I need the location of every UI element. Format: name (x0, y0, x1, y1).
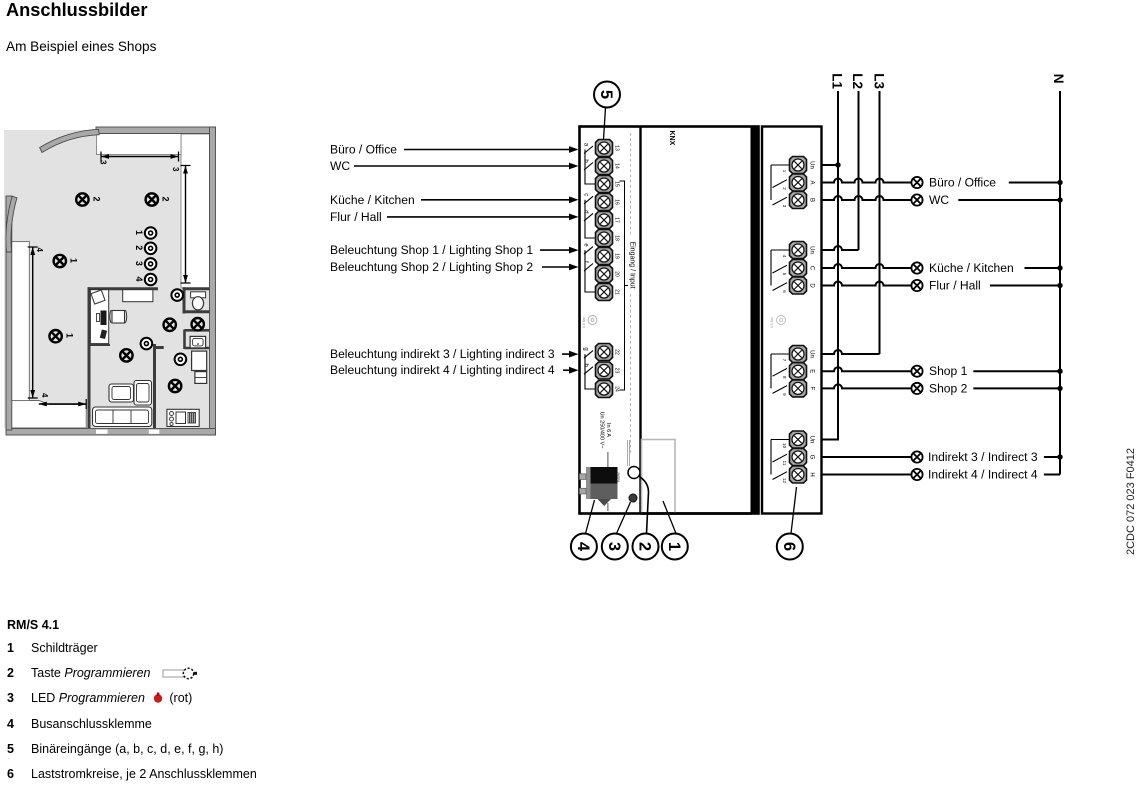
input switch group ef (584, 247, 595, 292)
armchair 2 (134, 381, 152, 406)
svg-text:3: 3 (605, 542, 623, 551)
svg-text:L3: L3 (872, 73, 887, 89)
wire D to N (990, 283, 1063, 288)
shelf top of back room (123, 290, 153, 302)
wire row G (822, 456, 912, 458)
input letters e f (583, 243, 589, 263)
svg-text:4: 4 (574, 542, 592, 552)
svg-text:N: N (1051, 74, 1066, 84)
svg-text:Un: Un (809, 161, 815, 169)
lamp label Küche/Kitchen (929, 261, 1014, 275)
lamp Shop 2 (911, 383, 922, 394)
lamp label Büro/Office (929, 176, 996, 190)
svg-text:H: H (809, 472, 815, 476)
svg-text:h: h (583, 364, 589, 367)
group 3 pin numbers (782, 359, 787, 396)
lamp WC (911, 194, 922, 205)
label L3 (872, 73, 887, 89)
label N (1051, 74, 1066, 84)
desk (90, 290, 108, 344)
svg-text:1: 1 (69, 258, 79, 263)
dashed separator (630, 133, 632, 455)
wire H to N (1044, 474, 1060, 476)
WC wall (184, 287, 210, 313)
svg-text:WC: WC (929, 193, 949, 207)
svg-text:11: 11 (782, 461, 787, 466)
input letters g h (583, 347, 589, 366)
office chair (110, 310, 127, 323)
callout 3 (602, 502, 631, 560)
svg-text:Beleuchtung Shop 2 / Lighting: Beleuchtung Shop 2 / Lighting Shop 2 (330, 260, 533, 274)
desk phone (100, 329, 107, 339)
svg-text:19: 19 (614, 253, 620, 259)
sink room wall (185, 330, 210, 350)
rail L3 (879, 91, 881, 354)
svg-text:Küche / Kitchen: Küche / Kitchen (929, 261, 1014, 275)
svg-text:g: g (583, 347, 589, 350)
lamp 1 lower (49, 330, 74, 342)
wire Un2 to L2 (822, 246, 859, 250)
partition wall desk room bottom (89, 344, 110, 346)
svg-text:3: 3 (99, 160, 108, 165)
Taste label (616, 472, 621, 483)
device right box (762, 127, 822, 514)
page title (6, 0, 148, 21)
outer wall left (6, 196, 12, 430)
svg-text:13: 13 (614, 145, 620, 151)
kitchen block (167, 409, 199, 426)
lamp Flur/Hall (911, 280, 922, 291)
bus connection terminal (580, 467, 618, 506)
wire row B (822, 196, 912, 200)
bottom wall door gaps (96, 430, 159, 434)
lamp Shop 1 (911, 366, 922, 377)
svg-text:Flur / Hall: Flur / Hall (330, 210, 382, 224)
callout 2 (633, 477, 659, 560)
label L1 (830, 73, 845, 89)
svg-text:1: 1 (65, 333, 75, 338)
svg-text:10: 10 (782, 443, 787, 449)
lamp Küche/Kitchen (911, 262, 922, 273)
binary input terminals 13-21 (596, 140, 613, 301)
bus wire stub (607, 452, 609, 511)
svg-text:16: 16 (614, 199, 620, 205)
wire arrow input a (404, 146, 579, 153)
lamp 1 upper (54, 255, 79, 267)
partition wall horizontal main (88, 287, 210, 290)
rating text Un 250/400V (599, 412, 612, 449)
downlight row 1-4 (134, 227, 156, 285)
dimension line bottom (4) (39, 393, 86, 409)
svg-text:Büro / Office: Büro / Office (330, 143, 397, 157)
curved storefront wall (40, 129, 100, 152)
armchair 1 (109, 384, 134, 402)
visitor chair (91, 290, 105, 304)
callout 1 (662, 501, 688, 560)
lamp WC room (192, 318, 204, 330)
group 2 pin numbers (782, 255, 787, 294)
lamp Indirekt 4 (911, 469, 922, 480)
svg-text:Un: Un (809, 436, 815, 444)
svg-text:14: 14 (614, 163, 620, 169)
lamp lounge (120, 349, 132, 361)
wire row F (822, 384, 912, 388)
document number (1125, 543, 1142, 555)
output terminal group 4 Un G H (790, 431, 807, 483)
svg-text:20: 20 (614, 271, 620, 277)
group 4 bracket and contacts (771, 440, 789, 480)
output terminal group 1 Un A B (790, 157, 807, 209)
legend (7, 614, 257, 787)
wire arrow input d (387, 214, 579, 221)
svg-text:4: 4 (134, 277, 144, 282)
lamp label Indirekt 3 (928, 450, 1038, 464)
svg-text:23: 23 (614, 368, 620, 374)
svg-text:Un: Un (809, 246, 815, 254)
svg-text:Indirekt 4 / Indirect 4: Indirekt 4 / Indirect 4 (928, 468, 1038, 482)
svg-text:6: 6 (780, 542, 798, 551)
dimension line right (3) (171, 166, 191, 284)
programming button (628, 467, 640, 479)
input label Beleuchtung Shop 1 (330, 243, 533, 257)
lamp kitchen room (164, 319, 176, 331)
svg-text:Un: Un (809, 350, 815, 358)
lamp Indirekt 3 (911, 451, 922, 462)
svg-text:Beleuchtung Shop 1 / Lighting: Beleuchtung Shop 1 / Lighting Shop 1 (330, 243, 533, 257)
lamp Büro/Office (911, 177, 922, 188)
svg-text:3: 3 (134, 261, 144, 266)
white cabinet left wall (10, 242, 30, 401)
svg-text:0.5 Nm: 0.5 Nm (770, 317, 774, 328)
lamp label Shop 1 (929, 364, 968, 378)
KNX logo (668, 131, 675, 146)
svg-text:c: c (583, 193, 589, 196)
group 2 labels (809, 246, 815, 288)
lamp 2 right (146, 193, 171, 205)
group 3 bracket and contacts (771, 354, 789, 393)
input switch group ab (584, 146, 595, 184)
svg-text:2: 2 (92, 197, 102, 202)
callout 4 (571, 500, 597, 560)
svg-text:3: 3 (171, 167, 180, 172)
svg-text:15: 15 (614, 181, 620, 187)
svg-text:L2: L2 (850, 73, 865, 89)
device RM/S 4.1 left box (580, 127, 759, 514)
wire arrow input g (562, 351, 579, 358)
svg-text:0.5 Nm: 0.5 Nm (582, 317, 586, 328)
svg-text:21: 21 (614, 289, 620, 295)
wire A to N (1009, 180, 1063, 185)
rail L1 (822, 91, 839, 440)
input letters a b (583, 143, 589, 164)
output terminal group 3 Un E F (790, 346, 807, 397)
toilet (191, 292, 206, 310)
svg-text:Eingang / Input: Eingang / Input (629, 241, 636, 288)
label L2 (850, 73, 865, 89)
Eingang/Input bracket (620, 181, 629, 390)
svg-text:WC: WC (330, 159, 350, 173)
svg-text:18: 18 (614, 235, 620, 241)
rail N (1059, 91, 1061, 475)
input switch group gh (584, 351, 595, 389)
svg-text:2: 2 (636, 542, 654, 551)
svg-text:2: 2 (134, 245, 144, 250)
input label WC (330, 159, 350, 173)
svg-text:C: C (809, 266, 815, 271)
device black bar (751, 126, 760, 514)
input label Beleuchtung indirekt 4 (330, 363, 555, 377)
junction L1 Un1 (835, 162, 840, 167)
wire E to N (973, 369, 1062, 374)
input label Büro/Office (330, 143, 397, 157)
svg-text:Shop 2: Shop 2 (929, 381, 968, 395)
svg-text:Un 250/400 V~: Un 250/400 V~ (599, 412, 605, 449)
svg-text:5: 5 (597, 90, 615, 99)
input label Beleuchtung Shop 2 (330, 260, 533, 274)
wire arrow input e (540, 247, 579, 254)
group 1 pin numbers (782, 170, 787, 208)
terminal numbers 13-24 (614, 145, 620, 392)
wire arrow input c (421, 196, 579, 203)
manual icon left (582, 316, 597, 329)
svg-text:d: d (583, 210, 589, 213)
binary input terminals 22-24 (596, 344, 613, 398)
outer wall right (210, 127, 216, 435)
lamp bottom right (169, 380, 181, 392)
group 4 pin numbers (782, 443, 787, 484)
Schildträger label carrier (641, 440, 753, 514)
wire row C (822, 264, 912, 268)
partition wall middle vertical (155, 344, 164, 428)
svg-text:L1: L1 (830, 73, 845, 89)
rail L2 (858, 91, 860, 250)
downlight corridor (171, 289, 183, 301)
partition wall vertical left of back rooms (88, 287, 91, 428)
wire C to N (1025, 265, 1063, 270)
device divider (639, 127, 641, 514)
wire row D (822, 282, 912, 286)
bed right room (192, 351, 207, 383)
wire Un1 to L1 (822, 164, 839, 166)
Eingang/Input text (629, 237, 638, 294)
floor area (4, 130, 210, 428)
svg-text:Küche / Kitchen: Küche / Kitchen (330, 193, 415, 207)
svg-text:24: 24 (614, 386, 620, 392)
wire Un3 to L3 (822, 350, 880, 354)
group 4 labels (809, 436, 815, 477)
svg-text:4: 4 (35, 248, 44, 253)
svg-text:2: 2 (161, 197, 171, 202)
wire B to N (958, 197, 1062, 202)
lamp label Indirekt 4 (928, 468, 1038, 482)
wire row A (822, 179, 912, 183)
input switch group cd (584, 196, 595, 238)
svg-text:12: 12 (782, 478, 787, 484)
downlight right room (175, 354, 187, 366)
svg-text:Indirekt 3 / Indirect 3: Indirekt 3 / Indirect 3 (928, 450, 1038, 464)
wire arrow input h (563, 367, 579, 374)
manual icon right (770, 316, 786, 329)
svg-text:Flur / Hall: Flur / Hall (929, 279, 981, 293)
washbasin (190, 336, 206, 348)
svg-text:Beleuchtung indirekt 3 / Light: Beleuchtung indirekt 3 / Lighting indire… (330, 347, 555, 361)
svg-text:KNX: KNX (668, 131, 675, 146)
svg-text:Büro / Office: Büro / Office (929, 176, 996, 190)
svg-text:1: 1 (134, 230, 144, 235)
wire row H (822, 474, 912, 476)
wire arrow input f (542, 264, 579, 271)
input label Küche/Kitchen (330, 193, 415, 207)
dimension line top (3) (99, 152, 179, 166)
wire row E (822, 367, 912, 371)
monitor on desk (97, 311, 107, 326)
group 1 labels (809, 161, 815, 202)
downlight centre (141, 338, 153, 350)
lamp label WC (929, 193, 949, 207)
group 2 bracket and contacts (771, 250, 789, 291)
svg-text:E: E (809, 369, 815, 373)
output terminal group 2 Un C D (790, 242, 807, 295)
svg-text:Beleuchtung indirekt 4 / Light: Beleuchtung indirekt 4 / Lighting indire… (330, 363, 555, 377)
white corridor top right (181, 134, 210, 288)
white display window band top (97, 134, 182, 155)
callout 6 (777, 487, 803, 560)
callout 5 (594, 82, 620, 140)
lamp 2 left (76, 193, 101, 205)
sofa (93, 407, 152, 427)
input label Beleuchtung indirekt 3 (330, 347, 555, 361)
outer wall bottom (6, 429, 216, 436)
programming LED (629, 494, 637, 502)
group 1 bracket and contacts (771, 165, 789, 205)
white band bottom left (11, 401, 86, 429)
group 3 labels (809, 350, 815, 390)
svg-text:G: G (809, 455, 815, 460)
wire arrow input b (354, 163, 579, 170)
svg-text:F: F (809, 387, 815, 391)
dimension line left (4) (28, 247, 44, 398)
input label Flur/Hall (330, 210, 382, 224)
svg-text:17: 17 (614, 217, 620, 223)
svg-text:In 6 A: In 6 A (605, 423, 611, 437)
svg-text:22: 22 (614, 349, 620, 355)
wire F to N (973, 386, 1062, 391)
svg-text:Taste: Taste (616, 472, 621, 483)
lamp label Shop 2 (929, 381, 968, 395)
svg-text:B: B (809, 198, 815, 202)
svg-text:D: D (809, 283, 815, 288)
svg-text:1: 1 (665, 542, 683, 551)
lamp label Flur/Hall (929, 279, 981, 293)
curved wall lower left (6, 196, 17, 252)
outer wall top (96, 127, 216, 134)
wire G to N (1044, 454, 1063, 459)
svg-text:4: 4 (40, 393, 49, 398)
programming button lines (628, 440, 630, 466)
input letters c d (583, 193, 589, 213)
svg-text:A: A (809, 180, 815, 184)
svg-text:Shop 1: Shop 1 (929, 364, 968, 378)
